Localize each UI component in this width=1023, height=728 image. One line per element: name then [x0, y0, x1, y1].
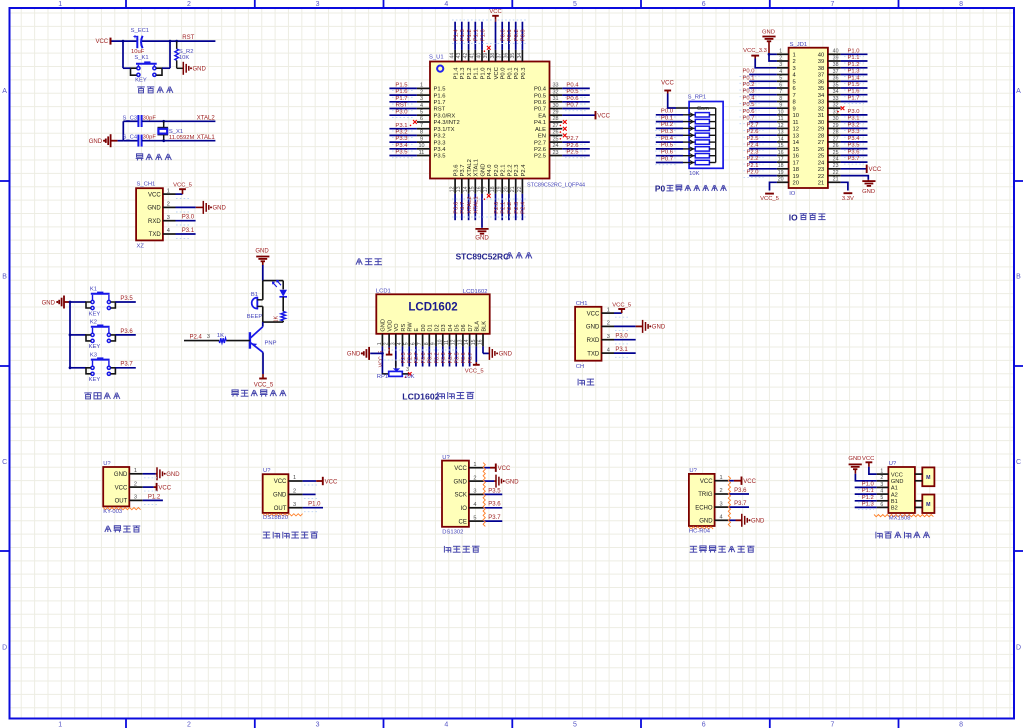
- svg-text:GND: GND: [255, 249, 269, 255]
- svg-text:P0.3: P0.3: [661, 129, 674, 135]
- svg-text:21: 21: [818, 181, 824, 187]
- svg-text:P2.2: P2.2: [507, 202, 513, 214]
- svg-text:15: 15: [471, 339, 477, 345]
- svg-text:P0.0: P0.0: [743, 69, 756, 75]
- svg-text:P0.1: P0.1: [661, 115, 673, 121]
- svg-text:29: 29: [552, 110, 558, 116]
- svg-text:S_JD1: S_JD1: [790, 42, 808, 48]
- svg-text:VCC: VCC: [95, 39, 108, 45]
- svg-text:OUT: OUT: [274, 506, 287, 512]
- svg-text:P0.4: P0.4: [534, 87, 547, 93]
- svg-text:B: B: [1016, 274, 1021, 281]
- svg-text:6: 6: [793, 86, 796, 92]
- svg-text:P0.6: P0.6: [661, 150, 674, 156]
- svg-text:P1.7: P1.7: [395, 96, 407, 102]
- svg-text:GND: GND: [213, 206, 227, 212]
- svg-text:P1.6: P1.6: [434, 93, 446, 99]
- svg-text:37: 37: [833, 69, 839, 75]
- svg-text:8: 8: [959, 1, 963, 8]
- svg-text:30: 30: [833, 116, 839, 122]
- svg-text:P4.2: P4.2: [487, 68, 493, 80]
- svg-text:VCC: VCC: [498, 466, 511, 472]
- svg-text:C: C: [2, 459, 7, 466]
- svg-text:P1.0: P1.0: [480, 67, 486, 80]
- svg-text:3.3V: 3.3V: [842, 196, 854, 202]
- svg-text:P1.4: P1.4: [454, 67, 460, 80]
- svg-text:2: 2: [720, 488, 723, 494]
- svg-text:10K: 10K: [179, 55, 189, 61]
- svg-text:P1.0: P1.0: [862, 482, 875, 488]
- svg-text:2: 2: [384, 342, 390, 345]
- svg-text:VCC_5: VCC_5: [465, 368, 484, 374]
- svg-text:BLA: BLA: [475, 321, 481, 332]
- svg-text:GND: GND: [347, 352, 361, 358]
- svg-text:P3.0: P3.0: [615, 334, 628, 340]
- svg-text:32: 32: [833, 103, 839, 109]
- svg-text:7: 7: [779, 89, 782, 95]
- svg-text:VCC: VCC: [158, 485, 171, 491]
- svg-text:P1.4: P1.4: [453, 29, 459, 42]
- svg-text:P0.3: P0.3: [521, 29, 527, 41]
- svg-text:K2: K2: [90, 319, 97, 325]
- svg-text:GND: GND: [166, 472, 180, 478]
- svg-text:GND: GND: [751, 519, 765, 525]
- svg-text:33: 33: [552, 83, 558, 89]
- svg-text:P3.7: P3.7: [488, 515, 501, 521]
- svg-text:P2.1: P2.1: [501, 202, 507, 214]
- svg-text:D7: D7: [468, 324, 474, 331]
- svg-text:3: 3: [406, 367, 409, 373]
- svg-text:P1.3: P1.3: [460, 68, 466, 80]
- svg-text:P1.6: P1.6: [395, 89, 408, 95]
- svg-text:18: 18: [793, 167, 799, 173]
- svg-text:P3.1: P3.1: [615, 347, 628, 353]
- svg-text:42: 42: [463, 53, 469, 59]
- svg-text:39: 39: [833, 55, 839, 61]
- svg-text:1: 1: [293, 475, 296, 481]
- svg-text:U?: U?: [263, 468, 271, 474]
- svg-text:D2: D2: [434, 324, 440, 331]
- svg-text:P1.5: P1.5: [848, 82, 860, 88]
- svg-text:7: 7: [417, 342, 423, 345]
- svg-text:P2.0: P2.0: [494, 201, 500, 214]
- svg-text:VCC: VCC: [454, 466, 467, 472]
- svg-text:P2.5: P2.5: [401, 352, 407, 363]
- svg-text:33: 33: [833, 96, 839, 102]
- svg-text:38: 38: [833, 62, 839, 68]
- svg-text:VCC: VCC: [489, 9, 501, 15]
- svg-text:13: 13: [778, 130, 784, 136]
- svg-text:32: 32: [552, 89, 558, 95]
- svg-text:28: 28: [818, 133, 824, 139]
- svg-text:A: A: [1016, 88, 1021, 95]
- svg-text:2: 2: [187, 721, 191, 728]
- svg-text:34: 34: [517, 53, 523, 59]
- svg-text:A2: A2: [891, 492, 898, 498]
- svg-text:K3: K3: [90, 352, 97, 358]
- svg-text:P0.1: P0.1: [743, 75, 755, 81]
- svg-text:M: M: [926, 502, 931, 508]
- svg-text:VCC_5: VCC_5: [173, 183, 192, 189]
- svg-text:34: 34: [818, 93, 825, 99]
- svg-text:4: 4: [397, 342, 403, 345]
- svg-text:KEY: KEY: [89, 311, 101, 317]
- svg-text:P3.3: P3.3: [434, 140, 446, 146]
- svg-text:10: 10: [418, 143, 424, 149]
- svg-text:P0.1: P0.1: [507, 29, 513, 41]
- svg-text:16: 16: [478, 339, 484, 345]
- svg-text:5: 5: [573, 1, 577, 8]
- svg-text:P2.6: P2.6: [534, 147, 546, 153]
- svg-text:TXD: TXD: [587, 351, 600, 357]
- svg-text:P3.1: P3.1: [848, 116, 860, 122]
- svg-text:2: 2: [793, 59, 796, 65]
- svg-text:P3.6: P3.6: [454, 165, 460, 177]
- svg-text:IO: IO: [789, 212, 798, 222]
- svg-text:4: 4: [607, 347, 610, 353]
- svg-text:D0: D0: [421, 324, 427, 331]
- svg-text:16: 16: [793, 154, 799, 160]
- svg-text:4: 4: [720, 515, 723, 521]
- svg-text:KY-003: KY-003: [103, 509, 122, 515]
- svg-text:20: 20: [793, 181, 800, 187]
- svg-text:29: 29: [818, 127, 824, 133]
- svg-text:36: 36: [503, 53, 509, 59]
- svg-text:C: C: [1016, 459, 1021, 466]
- svg-text:E: E: [414, 328, 420, 332]
- svg-text:22: 22: [833, 170, 839, 176]
- svg-text:VCC_5: VCC_5: [612, 302, 631, 308]
- svg-text:1: 1: [420, 83, 423, 89]
- svg-text:VCC_5: VCC_5: [254, 382, 274, 388]
- svg-text:P2.1: P2.1: [747, 163, 759, 169]
- svg-text:P0.2: P0.2: [514, 29, 520, 41]
- svg-text:P2.7: P2.7: [534, 140, 546, 146]
- svg-text:10: 10: [793, 113, 800, 119]
- svg-text:GND: GND: [193, 67, 207, 73]
- svg-text:P4.3/INT2: P4.3/INT2: [434, 120, 460, 126]
- svg-text:VCC: VCC: [325, 479, 338, 485]
- svg-text:28: 28: [833, 130, 839, 136]
- svg-text:P3.6: P3.6: [848, 149, 860, 155]
- svg-text:27: 27: [833, 136, 839, 142]
- svg-text:40: 40: [818, 53, 825, 59]
- svg-text:EN: EN: [538, 134, 546, 140]
- svg-text:DS1302: DS1302: [442, 529, 463, 535]
- svg-text:P1.2: P1.2: [467, 29, 473, 41]
- svg-text:XTAL1: XTAL1: [197, 135, 216, 141]
- svg-text:2: 2: [607, 321, 610, 327]
- svg-text:6: 6: [420, 116, 423, 122]
- svg-text:41: 41: [470, 53, 476, 59]
- svg-text:P0.0: P0.0: [661, 109, 674, 115]
- svg-text:VCC: VCC: [869, 167, 882, 173]
- svg-text:43: 43: [456, 53, 462, 59]
- svg-text:GND: GND: [762, 29, 775, 35]
- svg-text:2: 2: [420, 89, 423, 95]
- svg-text:U?: U?: [103, 461, 111, 467]
- svg-text:24: 24: [818, 160, 825, 166]
- svg-text:IO: IO: [789, 191, 796, 197]
- svg-text:P2.5: P2.5: [534, 154, 546, 160]
- svg-text:S_X1: S_X1: [169, 129, 183, 135]
- svg-text:4: 4: [779, 69, 782, 75]
- svg-text:P3.4: P3.4: [434, 147, 447, 153]
- svg-text:RP1: RP1: [377, 374, 388, 380]
- svg-text:XTAL2: XTAL2: [197, 116, 216, 122]
- svg-text:40: 40: [833, 49, 839, 55]
- svg-text:GND: GND: [273, 493, 287, 499]
- svg-text:P3.6: P3.6: [453, 202, 459, 214]
- svg-text:36: 36: [833, 76, 839, 82]
- svg-text:P0.5: P0.5: [534, 93, 546, 99]
- svg-text:2: 2: [880, 475, 883, 481]
- svg-text:DS18B20: DS18B20: [263, 515, 289, 521]
- svg-text:P2.3: P2.3: [514, 165, 520, 177]
- svg-text:P0.5: P0.5: [566, 89, 579, 95]
- svg-text:P3.5: P3.5: [488, 488, 501, 494]
- svg-text:VCC_3.3: VCC_3.3: [743, 48, 767, 54]
- svg-text:P1.0: P1.0: [480, 29, 486, 42]
- svg-text:5: 5: [573, 721, 577, 728]
- svg-text:9: 9: [779, 103, 782, 109]
- svg-text:1: 1: [607, 307, 610, 313]
- svg-text:13: 13: [456, 186, 462, 192]
- svg-text:GND: GND: [381, 319, 387, 332]
- svg-text:P3.4: P3.4: [848, 136, 861, 142]
- svg-text:14: 14: [778, 136, 784, 142]
- svg-text:P3.5: P3.5: [848, 143, 860, 149]
- svg-text:B: B: [2, 274, 7, 281]
- svg-text:P2.7: P2.7: [566, 136, 578, 142]
- svg-text:P0.6: P0.6: [534, 100, 546, 106]
- svg-text:27: 27: [818, 140, 824, 146]
- svg-text:P2.4: P2.4: [190, 334, 203, 340]
- svg-text:1: 1: [473, 462, 476, 468]
- svg-text:D4: D4: [448, 324, 454, 331]
- svg-text:P1.1: P1.1: [848, 55, 860, 61]
- svg-text:10: 10: [437, 339, 443, 345]
- svg-text:LCD1602: LCD1602: [402, 391, 439, 401]
- svg-text:P2.4: P2.4: [747, 143, 760, 149]
- svg-text:P2.7: P2.7: [747, 122, 759, 128]
- svg-text:2: 2: [779, 55, 782, 61]
- svg-text:23: 23: [833, 163, 839, 169]
- svg-text:TXD: TXD: [149, 232, 162, 238]
- svg-text:6: 6: [702, 721, 706, 728]
- svg-text:RXD: RXD: [148, 219, 161, 225]
- svg-text:26: 26: [818, 147, 824, 153]
- svg-text:RW: RW: [408, 322, 414, 332]
- svg-text:CE: CE: [459, 519, 467, 525]
- svg-text:GND: GND: [505, 479, 519, 485]
- svg-text:18: 18: [778, 163, 784, 169]
- svg-text:38: 38: [490, 53, 496, 59]
- svg-text:P3.1/TX: P3.1/TX: [434, 127, 455, 133]
- svg-text:P0.6: P0.6: [566, 96, 579, 102]
- svg-text:S_C4: S_C4: [123, 135, 138, 141]
- svg-text:3: 3: [420, 96, 423, 102]
- svg-text:30: 30: [818, 120, 825, 126]
- svg-text:P3.7: P3.7: [460, 202, 466, 214]
- svg-text:VCC: VCC: [274, 479, 287, 485]
- svg-text:1: 1: [720, 475, 723, 481]
- svg-text:VCC: VCC: [148, 192, 161, 198]
- svg-text:44: 44: [450, 53, 456, 59]
- svg-text:P1.7: P1.7: [434, 100, 446, 106]
- svg-text:31: 31: [552, 96, 558, 102]
- svg-text:25: 25: [552, 136, 558, 142]
- svg-text:P1.1: P1.1: [474, 29, 480, 41]
- svg-text:P0.0: P0.0: [421, 352, 427, 363]
- svg-text:3: 3: [167, 215, 170, 221]
- svg-text:P2.5: P2.5: [566, 150, 579, 156]
- svg-text:P2.3: P2.3: [514, 202, 520, 214]
- svg-text:5: 5: [779, 76, 782, 82]
- svg-text:P0.2: P0.2: [434, 352, 440, 363]
- svg-text:1: 1: [58, 1, 62, 8]
- svg-text:1: 1: [134, 468, 137, 474]
- svg-text:10K: 10K: [689, 171, 699, 177]
- svg-text:39: 39: [818, 59, 824, 65]
- svg-text:GND: GND: [891, 479, 904, 485]
- svg-text:P3.4: P3.4: [395, 143, 408, 149]
- svg-text:9: 9: [793, 106, 796, 112]
- svg-text:P0.5: P0.5: [743, 102, 755, 108]
- svg-text:LCD1602: LCD1602: [463, 289, 488, 295]
- svg-text:P1.6: P1.6: [848, 89, 860, 95]
- svg-text:B1: B1: [251, 292, 258, 298]
- svg-text:P1.0: P1.0: [848, 48, 861, 54]
- svg-text:3: 3: [779, 62, 782, 68]
- svg-text:VCC_5: VCC_5: [760, 196, 779, 202]
- svg-text:14: 14: [464, 339, 470, 345]
- svg-text:P0.5: P0.5: [455, 352, 461, 363]
- svg-text:EA: EA: [538, 113, 546, 119]
- svg-text:8: 8: [959, 721, 963, 728]
- svg-text:19: 19: [778, 170, 784, 176]
- svg-text:23: 23: [552, 150, 558, 156]
- svg-text:2: 2: [293, 489, 296, 495]
- svg-text:15: 15: [778, 143, 784, 149]
- svg-text:P0.7: P0.7: [743, 116, 755, 122]
- svg-text:P0.5: P0.5: [661, 143, 674, 149]
- svg-text:P2.4: P2.4: [521, 164, 527, 177]
- svg-text:2: 2: [187, 1, 191, 8]
- svg-text:5: 5: [420, 110, 423, 116]
- svg-text:P3.5: P3.5: [120, 296, 133, 302]
- svg-text:35: 35: [818, 86, 824, 92]
- svg-text:P3.7: P3.7: [848, 156, 860, 162]
- svg-text:4: 4: [880, 489, 883, 495]
- svg-text:15: 15: [470, 186, 476, 192]
- svg-text:VCC: VCC: [661, 80, 674, 86]
- svg-text:TRIG: TRIG: [698, 492, 713, 498]
- svg-text:S_EC1: S_EC1: [131, 28, 149, 34]
- svg-text:P0.2: P0.2: [661, 122, 673, 128]
- svg-text:P1.5: P1.5: [395, 83, 408, 89]
- svg-text:P3.0: P3.0: [395, 109, 408, 115]
- svg-text:38: 38: [818, 66, 824, 72]
- svg-text:P0.4: P0.4: [566, 83, 579, 89]
- svg-text:GND: GND: [89, 139, 103, 145]
- svg-text:IO: IO: [461, 506, 468, 512]
- svg-text:P1.4: P1.4: [848, 75, 861, 81]
- svg-text:P0.7: P0.7: [468, 352, 474, 363]
- svg-text:4: 4: [473, 502, 476, 508]
- svg-text:P0.7: P0.7: [661, 156, 673, 162]
- svg-text:RST: RST: [182, 35, 194, 41]
- svg-text:5: 5: [404, 342, 410, 345]
- svg-text:17: 17: [793, 160, 799, 166]
- svg-text:P1.7: P1.7: [848, 96, 860, 102]
- svg-text:P0.7: P0.7: [566, 103, 578, 109]
- svg-text:P1.0: P1.0: [308, 502, 321, 508]
- svg-text:P3.0: P3.0: [848, 109, 861, 115]
- svg-text:VCC: VCC: [115, 485, 128, 491]
- svg-text:GND: GND: [147, 206, 161, 212]
- svg-text:P3.2: P3.2: [395, 130, 407, 136]
- svg-text:12: 12: [793, 127, 799, 133]
- svg-text:VCC: VCC: [494, 67, 500, 79]
- svg-text:CH1: CH1: [576, 301, 588, 307]
- svg-text:K1: K1: [90, 287, 97, 293]
- svg-text:P3.0: P3.0: [182, 215, 195, 221]
- svg-text:VCC: VCC: [700, 479, 713, 485]
- svg-text:RST: RST: [396, 103, 408, 109]
- svg-text:VCC: VCC: [597, 114, 610, 120]
- svg-text:31: 31: [818, 113, 824, 119]
- svg-text:A1: A1: [891, 486, 898, 492]
- svg-text:P3.2: P3.2: [434, 134, 446, 140]
- svg-text:24: 24: [552, 143, 558, 149]
- svg-text:STC89C52RC_LQFP44: STC89C52RC_LQFP44: [527, 182, 585, 188]
- svg-text:S_C3: S_C3: [123, 115, 138, 121]
- svg-text:VCC: VCC: [891, 472, 903, 478]
- svg-text:MX1508: MX1508: [889, 516, 911, 522]
- svg-text:12: 12: [450, 186, 456, 192]
- svg-text:37: 37: [818, 73, 824, 79]
- svg-text:6: 6: [880, 502, 883, 508]
- svg-text:LCD1: LCD1: [376, 289, 391, 295]
- svg-text:P2.7: P2.7: [414, 352, 420, 363]
- svg-text:P0.1: P0.1: [507, 68, 513, 80]
- svg-text:39: 39: [483, 53, 489, 59]
- svg-text:P0: P0: [655, 184, 666, 194]
- svg-text:U?: U?: [442, 455, 450, 461]
- svg-text:RXD: RXD: [587, 338, 600, 344]
- svg-text:P0.6: P0.6: [743, 109, 755, 115]
- svg-text:3: 3: [607, 334, 610, 340]
- svg-text:S_RP1: S_RP1: [688, 95, 706, 101]
- svg-text:19: 19: [793, 174, 799, 180]
- svg-text:P2.3: P2.3: [747, 149, 759, 155]
- svg-text:5: 5: [793, 80, 796, 86]
- svg-text:D3: D3: [441, 324, 447, 331]
- svg-text:16: 16: [476, 186, 482, 192]
- svg-text:1: 1: [793, 53, 796, 59]
- svg-text:P0.0: P0.0: [501, 67, 507, 80]
- svg-text:13: 13: [457, 339, 463, 345]
- svg-text:XZ: XZ: [137, 244, 145, 250]
- svg-text:27: 27: [552, 123, 558, 129]
- svg-text:10K: 10K: [404, 374, 414, 380]
- svg-text:1K: 1K: [217, 333, 224, 339]
- svg-text:P3.5: P3.5: [395, 150, 408, 156]
- svg-text:12: 12: [451, 339, 457, 345]
- svg-text:U?: U?: [889, 461, 897, 467]
- svg-text:KEY: KEY: [89, 344, 101, 350]
